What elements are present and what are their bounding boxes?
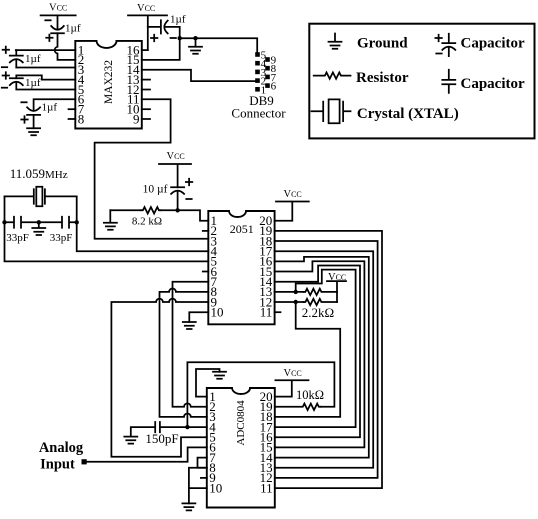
minus mark C1	[2, 66, 7, 68]
legend border	[309, 24, 534, 139]
svg-text:2.2kΩ: 2.2kΩ	[302, 305, 334, 320]
stub MAX232 pin13	[142, 79, 150, 81]
svg-text:10: 10	[209, 480, 222, 495]
capacitor C1 1uF (pins1-3)	[10, 50, 23, 67]
pin numbers MAX232 right 16-9	[127, 42, 141, 126]
stub MAX232 pin12	[142, 89, 150, 91]
minus mark C5	[171, 37, 176, 39]
IC MAX232 body	[75, 41, 142, 129]
stub 2051 pin11	[275, 311, 281, 313]
pin numbers ADC right 20-11	[260, 389, 274, 496]
plus mark C6	[186, 179, 192, 185]
svg-text:2051: 2051	[230, 222, 254, 236]
svg-text:Crystal (XTAL): Crystal (XTAL)	[357, 106, 459, 122]
svg-text:VCC: VCC	[137, 3, 155, 14]
legend minus mark	[436, 53, 441, 55]
wire 2051 pin13 to R2	[275, 291, 304, 293]
junction dot pin12	[294, 300, 298, 304]
svg-text:11: 11	[260, 480, 273, 495]
ground below 150pF	[124, 437, 137, 444]
resistor R4 10k zigzag	[275, 404, 321, 410]
wire C2 bottom to MAX232 pin5	[16, 82, 75, 90]
svg-text:11: 11	[260, 305, 273, 320]
wire ADC pin6 to analog input	[87, 447, 207, 461]
capacitor C2 1uF (pins4-5)	[10, 78, 23, 85]
capacitor C5 1uF (Vcc to gnd/DB9)	[148, 20, 180, 38]
plus mark C5	[151, 35, 157, 41]
plus mark C2	[3, 72, 9, 78]
svg-text:1µf: 1µf	[170, 14, 186, 26]
svg-text:1µf: 1µf	[65, 23, 81, 35]
DB9 pin square 9	[265, 57, 270, 62]
capacitor 33pF right	[39, 217, 77, 228]
ground below 33pF caps	[32, 222, 45, 235]
svg-text:150pF: 150pF	[145, 431, 178, 446]
wire MAX232 pin6 to C3	[34, 99, 76, 110]
capacitor 33pF left	[5, 217, 39, 228]
svg-text:1µf: 1µf	[25, 77, 41, 89]
DB9 pin square 5	[255, 52, 260, 57]
IC 2051 body	[208, 211, 274, 324]
wire C1 bottom to MAX232 pin3	[16, 67, 75, 69]
wire junction to DB9 pin5	[196, 38, 258, 52]
minus mark C2	[2, 87, 7, 89]
Vcc symbol top-middle	[128, 15, 167, 50]
wire 2051 pin13 net to ADC pin17	[275, 270, 356, 428]
svg-text:VCC: VCC	[284, 189, 302, 200]
svg-text:8: 8	[78, 111, 85, 126]
svg-text:MAX232: MAX232	[103, 60, 115, 104]
svg-text:Analog: Analog	[39, 440, 84, 456]
stub MAX232 pin9	[142, 118, 150, 120]
svg-text:33pF: 33pF	[6, 232, 29, 244]
DB9 pin square 7	[265, 75, 270, 80]
resistor R2 2.2k zigzag	[304, 289, 338, 295]
resistor R1 8.2k zigzag	[141, 207, 161, 213]
wire 2051 pin8 to ADC pin3 (hops over x172.5 riser; hop at x187.4)	[160, 289, 209, 417]
Vcc symbol top-left	[41, 15, 76, 29]
wire ADC pin1 to ground	[196, 369, 220, 397]
DB9 pin square 6	[265, 83, 270, 88]
svg-text:Ground: Ground	[357, 36, 408, 52]
svg-text:10 µf: 10 µf	[143, 184, 168, 196]
wire 2051 pin14 to ADC pin16	[275, 266, 360, 438]
legend ground symbol	[329, 34, 342, 49]
DB9 pin square 3	[255, 70, 260, 75]
svg-text:Connector: Connector	[231, 106, 286, 121]
wire 2051 pin12 net to ADC pin18	[275, 302, 340, 417]
resistor 8.2k wire	[110, 209, 141, 211]
svg-text:33pF: 33pF	[50, 232, 73, 244]
stub MAX232 pin8	[69, 118, 76, 120]
IC ADC0804 body	[207, 388, 275, 508]
Vcc symbol above 10uF cap	[159, 164, 191, 187]
junction dot ADC pin4	[185, 425, 189, 429]
wire 2051 pin9 to ADC pin5 (hops over x172.5 and x159.5 risers)	[111, 299, 208, 457]
wire C2 top to MAX232 pin4	[16, 75, 75, 79]
wire Vcc to MAX232 pin16	[142, 49, 148, 51]
junction dot center caps	[37, 220, 41, 224]
legend non-polarized capacitor symbol	[442, 70, 455, 93]
capacitor C4 1uF (Vcc to pin2)	[51, 26, 64, 33]
wire 2051 pin17 to ADC pin13	[275, 251, 374, 468]
svg-text:6: 6	[271, 81, 277, 93]
wire C4 to MAX232 pin2 with hop over pin1 wire	[55, 33, 76, 60]
svg-text:8.2 kΩ: 8.2 kΩ	[132, 216, 162, 228]
capacitor 150pF	[131, 422, 188, 437]
svg-text:VCC: VCC	[328, 272, 346, 283]
DB9 pin square 2	[255, 78, 260, 83]
crystal X1 11.059MHz	[5, 187, 77, 206]
wire 2051 pin18 to ADC pin12	[275, 241, 378, 478]
wire ADC pin7 to pin8	[198, 458, 207, 468]
plus mark C1	[3, 47, 9, 53]
ground left of R1	[104, 210, 117, 229]
minus mark C4	[45, 19, 50, 21]
svg-text:1µf: 1µf	[25, 53, 41, 65]
wire junction to ground junction	[180, 37, 196, 39]
legend plus mark	[435, 35, 441, 41]
junction dot left rail	[2, 220, 6, 224]
pin numbers 2051 right 20-11	[259, 213, 273, 320]
legend crystal symbol	[312, 99, 351, 123]
wire 2051 pin19 to ADC pin11	[275, 231, 382, 488]
ground symbol near DB9	[189, 38, 202, 54]
svg-text:Capacitor: Capacitor	[461, 36, 525, 52]
wire ADC pin4 to 150pF junction	[187, 426, 206, 428]
wire MAX232 pin1	[16, 49, 76, 51]
svg-text:1µf: 1µf	[42, 102, 58, 114]
svg-text:10: 10	[211, 305, 224, 320]
legend polarized capacitor symbol	[442, 34, 455, 56]
junction dot ground tap	[193, 36, 197, 40]
analog input terminal square	[82, 459, 87, 464]
ground below C3	[27, 128, 40, 135]
junction dot pin13	[294, 290, 298, 294]
svg-text:Input: Input	[40, 457, 75, 473]
svg-text:11.059MHz: 11.059MHz	[10, 166, 68, 181]
wire 2051 pin10 to ground	[189, 312, 208, 322]
svg-text:VCC: VCC	[167, 151, 185, 162]
wire MAX232 pin11 to 2051 pin3	[95, 99, 209, 238]
svg-text:10kΩ: 10kΩ	[296, 388, 324, 402]
svg-text:Resistor: Resistor	[356, 70, 409, 86]
stub MAX232 pin10	[142, 108, 150, 110]
wire 2051 pin15 to ADC pin15	[275, 261, 365, 447]
svg-text:ADC0804: ADC0804	[235, 400, 247, 446]
wire crystal right rail to 2051 pin4	[77, 196, 209, 251]
wire ADC pin8 to pin10 and ground	[189, 468, 207, 504]
legend resistor symbol	[314, 72, 351, 78]
wire ADC pin4 riser to 10k and ADC pin19	[187, 362, 334, 427]
stub ADC pin9	[201, 477, 207, 479]
wire 2051 pin12 to R3	[275, 301, 304, 303]
minus mark C3	[21, 101, 26, 103]
wire junction to MAX232 pin15	[142, 38, 180, 60]
Vcc symbol for 2.2k pullups	[327, 281, 346, 302]
ground below ADC pin10 wire	[182, 503, 195, 510]
wire 2051 pin7 to ADC pin2 (riser x172.5 with hop at x187.4)	[173, 282, 209, 407]
junction dot 10uF/R1	[175, 208, 179, 212]
svg-text:9: 9	[133, 111, 140, 126]
DB9 pin square 4	[255, 61, 260, 66]
junction dot C5/pin15	[178, 36, 182, 40]
wire MAX232 pin14 to DB9 pin2	[142, 70, 255, 81]
DB9 pin square 1	[255, 87, 260, 92]
ground below 2051 pin10	[183, 322, 196, 329]
capacitor C3 1uF (pin6 to gnd)	[27, 107, 40, 128]
stub MAX232 pin7	[69, 108, 76, 110]
capacitor C6 10uF	[171, 187, 184, 210]
ground above ADC pin1	[213, 372, 226, 379]
stub 2051 pin6	[203, 271, 209, 273]
resistor R3 2.2k zigzag	[304, 299, 338, 305]
plus mark C4	[46, 35, 52, 41]
plus mark C3	[21, 116, 27, 122]
wire crystal left rail to 2051 pin5	[5, 196, 209, 261]
wire R1 to junction and 2051 pin1	[160, 210, 208, 220]
svg-text:VCC: VCC	[49, 3, 67, 14]
svg-text:Capacitor: Capacitor	[461, 76, 525, 92]
stub 2051 pin2	[203, 230, 209, 232]
wire 2051 pin16 to ADC pin14	[275, 257, 369, 458]
junction dot right rail	[75, 220, 79, 224]
svg-text:VCC: VCC	[284, 368, 302, 379]
DB9 pin square 8	[265, 66, 270, 71]
Vcc symbol at ADC pin20	[275, 380, 309, 396]
minus mark C6	[186, 198, 191, 200]
Vcc symbol at 2051 pin20	[275, 202, 309, 221]
